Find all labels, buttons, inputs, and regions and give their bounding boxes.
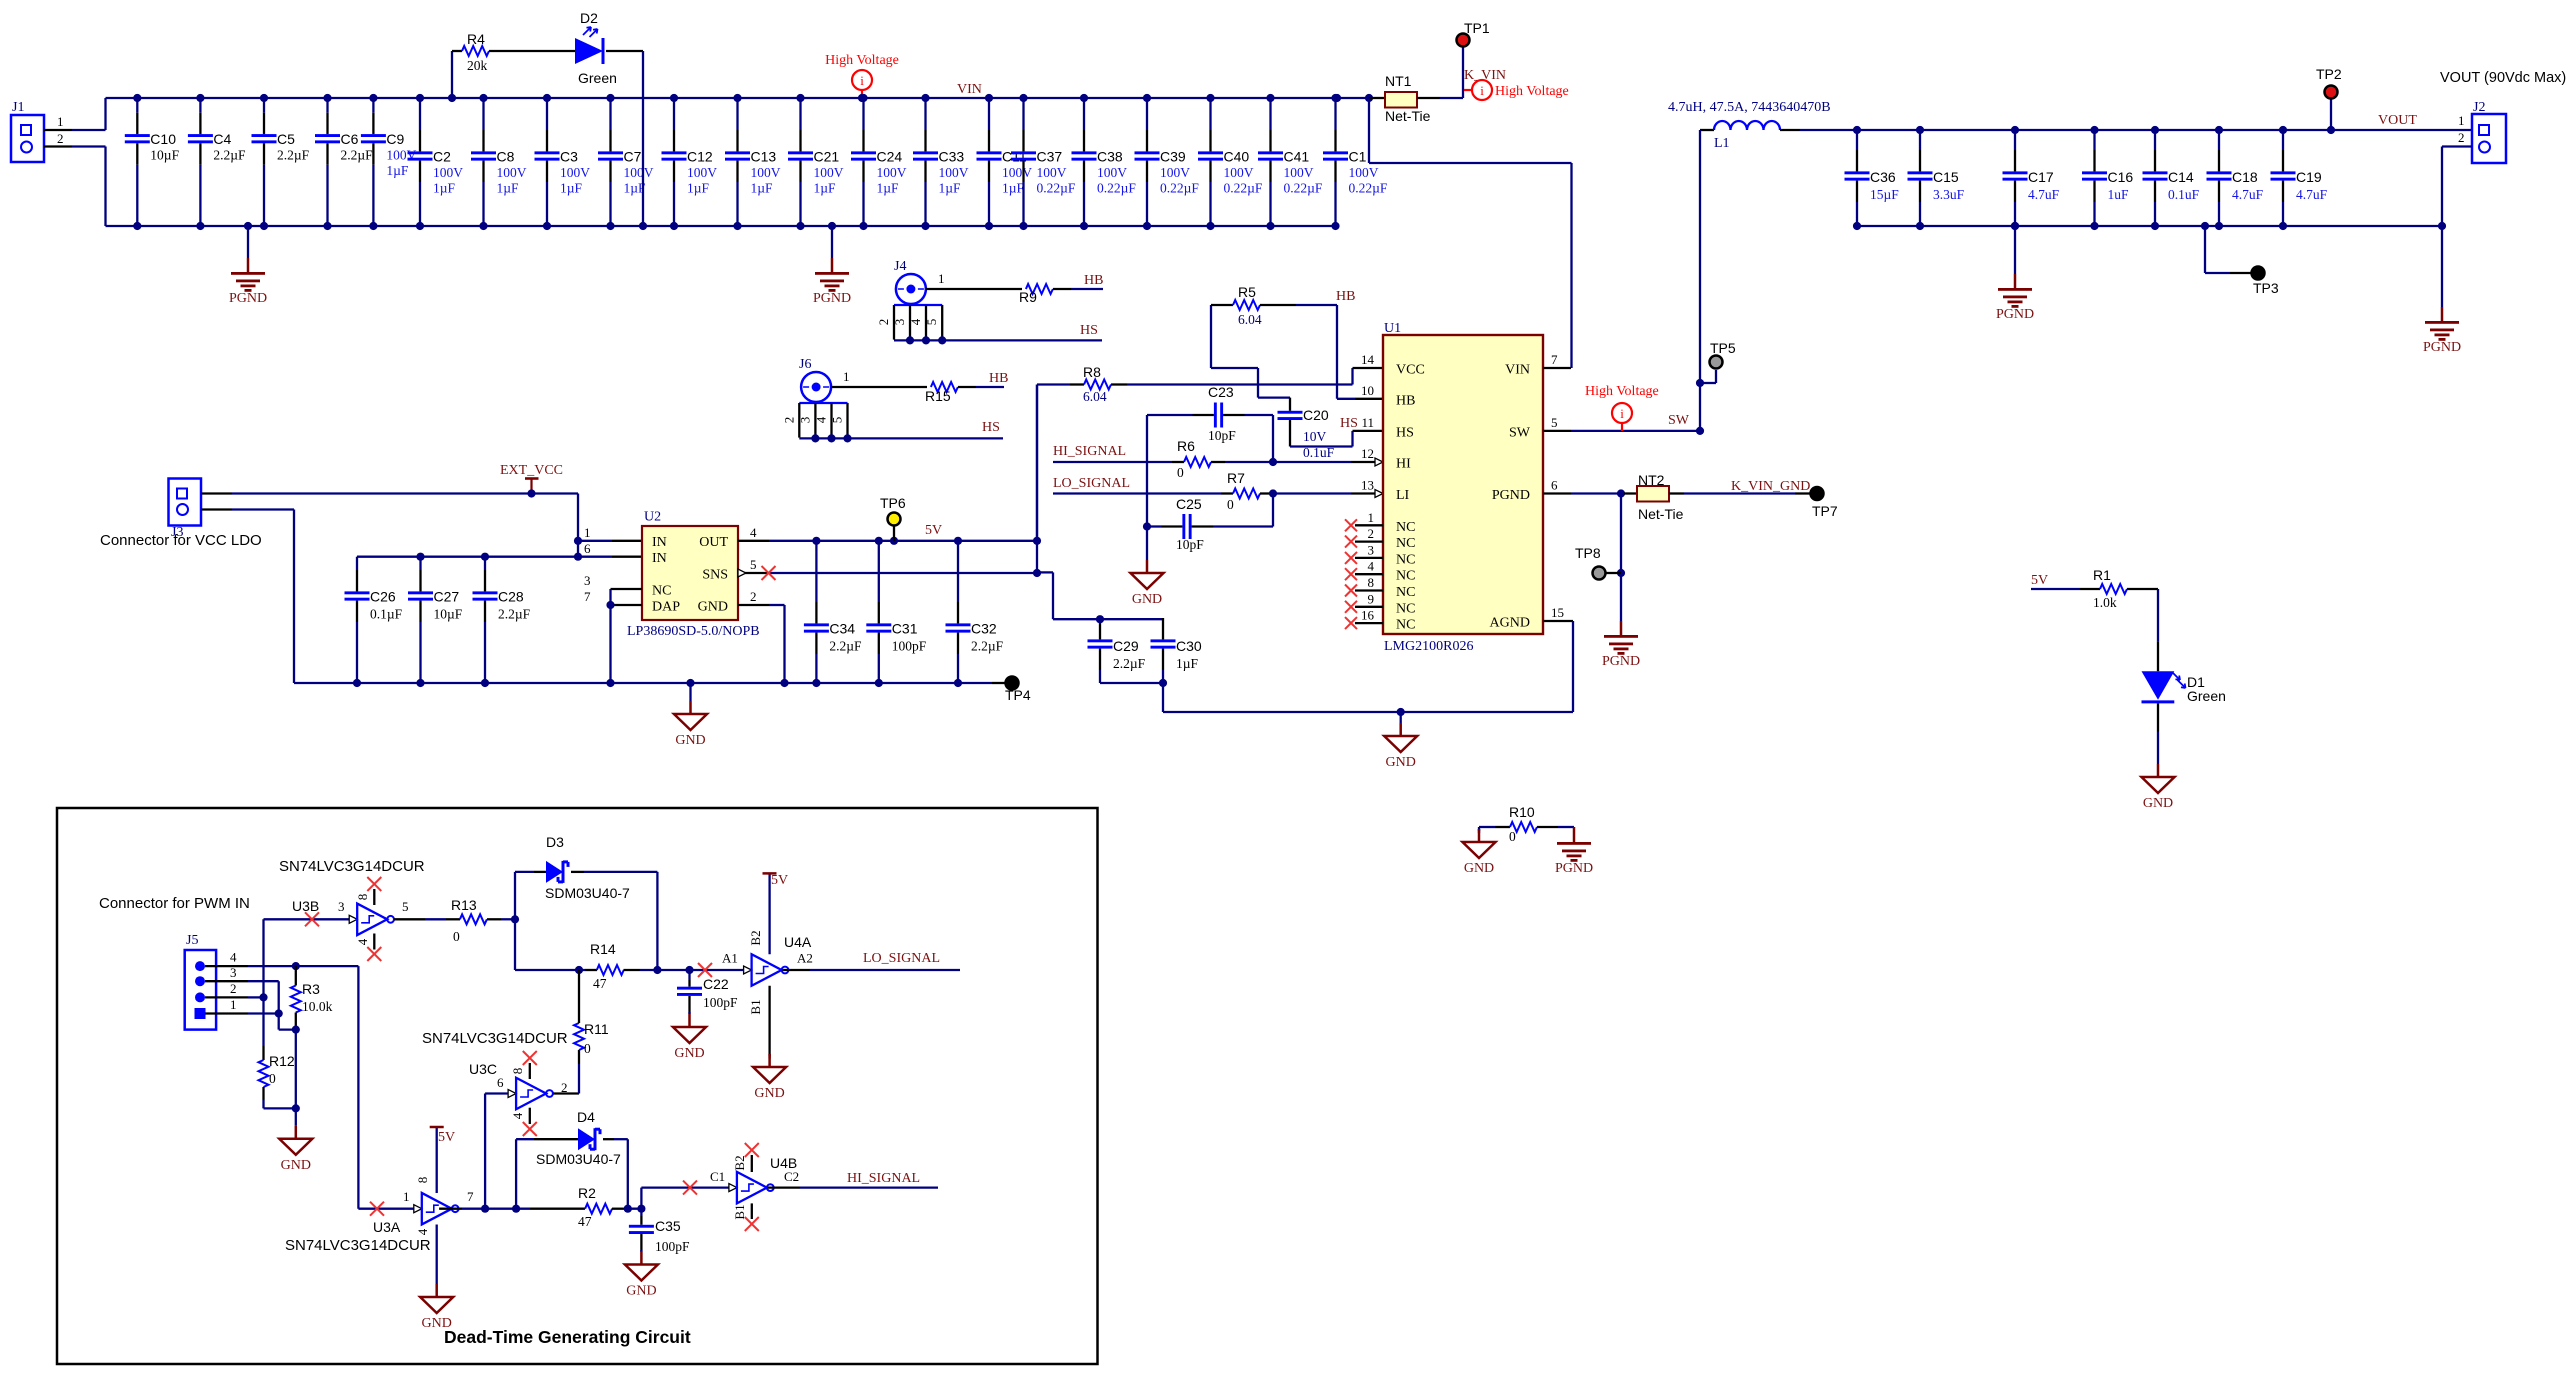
svg-text:C18: C18 bbox=[2232, 169, 2258, 185]
capacitor C23 bbox=[1214, 403, 1217, 428]
svg-text:4.7uF: 4.7uF bbox=[2296, 187, 2328, 202]
wire NT1 to K_VIN node bbox=[1417, 97, 1440, 99]
wire K_VIN_GND bbox=[1669, 492, 1684, 494]
svg-text:0.1uF: 0.1uF bbox=[2168, 187, 2200, 202]
svg-text:NT2: NT2 bbox=[1638, 472, 1665, 488]
svg-text:DAP: DAP bbox=[652, 600, 680, 615]
svg-text:100V: 100V bbox=[1037, 165, 1067, 180]
svg-text:15: 15 bbox=[1551, 605, 1564, 620]
resistor R8 (5V to VCC) bbox=[1036, 385, 1038, 541]
svg-text:6: 6 bbox=[584, 541, 591, 556]
svg-text:GND: GND bbox=[422, 1316, 452, 1331]
svg-text:HI_SIGNAL: HI_SIGNAL bbox=[847, 1171, 920, 1186]
capacitor C34 bbox=[815, 541, 817, 602]
svg-text:4.7uF: 4.7uF bbox=[2028, 187, 2060, 202]
svg-text:U3B: U3B bbox=[292, 898, 319, 914]
svg-text:GND: GND bbox=[1464, 861, 1494, 876]
svg-text:HI: HI bbox=[1396, 457, 1411, 472]
jumper J4 shield pins 2-5 bbox=[894, 304, 942, 306]
svg-text:6.04: 6.04 bbox=[1083, 389, 1107, 404]
svg-text:R8: R8 bbox=[1083, 364, 1101, 380]
svg-text:1: 1 bbox=[57, 114, 64, 129]
wire U3C input bbox=[484, 1094, 486, 1209]
svg-text:0.1µF: 0.1µF bbox=[370, 607, 403, 622]
svg-text:PGND: PGND bbox=[1555, 861, 1593, 876]
capacitor C6 bbox=[326, 98, 328, 113]
svg-text:High Voltage: High Voltage bbox=[1585, 384, 1659, 399]
svg-text:4: 4 bbox=[230, 950, 237, 965]
U1 NC pins bbox=[1355, 524, 1383, 526]
wire U2 pin1 stub bbox=[578, 540, 612, 542]
svg-text:J2: J2 bbox=[2473, 100, 2485, 115]
svg-text:8: 8 bbox=[355, 894, 370, 901]
svg-text:1: 1 bbox=[938, 271, 945, 286]
wire PGND bottom rail bbox=[106, 225, 1338, 227]
svg-text:100V: 100V bbox=[1284, 165, 1314, 180]
power ground PGND (R10) bbox=[1557, 842, 1591, 845]
connector J5 (PWM in) bbox=[185, 950, 216, 1030]
svg-text:1µF: 1µF bbox=[687, 181, 710, 196]
svg-text:C33: C33 bbox=[939, 149, 965, 165]
svg-text:C3: C3 bbox=[560, 149, 578, 165]
svg-text:8: 8 bbox=[415, 1177, 430, 1184]
svg-text:0: 0 bbox=[584, 1041, 591, 1056]
svg-text:7: 7 bbox=[467, 1189, 474, 1204]
svg-text:3: 3 bbox=[798, 417, 813, 424]
power port EXT_VCC bbox=[525, 477, 539, 480]
svg-text:J6: J6 bbox=[799, 357, 811, 372]
capacitor C10 bbox=[136, 98, 138, 113]
svg-text:10: 10 bbox=[1361, 383, 1374, 398]
wire HB to U1 pin10 bbox=[1336, 305, 1338, 399]
LED D2 bbox=[575, 38, 603, 64]
capacitor C11 bbox=[988, 98, 990, 130]
wire U3B output / resistor R13 bbox=[394, 918, 425, 920]
svg-text:NC: NC bbox=[1396, 569, 1415, 584]
svg-text:0: 0 bbox=[269, 1071, 276, 1086]
svg-text:A2: A2 bbox=[797, 950, 813, 965]
svg-text:100V: 100V bbox=[433, 165, 463, 180]
U4B power pins bbox=[751, 1155, 753, 1172]
wire C29/C30 bottom to GND line bbox=[1100, 682, 1163, 684]
svg-text:1: 1 bbox=[403, 1189, 410, 1204]
svg-text:9: 9 bbox=[1368, 591, 1375, 606]
capacitor C18 bbox=[2218, 130, 2220, 150]
wire U2 input rail bbox=[357, 556, 612, 558]
svg-text:C38: C38 bbox=[1097, 149, 1123, 165]
svg-text:0: 0 bbox=[453, 929, 460, 944]
regulator U2 LP38690SD-5.0/NOPB bbox=[642, 526, 738, 620]
inductor L1 bbox=[1700, 129, 1714, 131]
svg-text:1: 1 bbox=[584, 525, 591, 540]
svg-text:3.3uF: 3.3uF bbox=[1933, 187, 1965, 202]
svg-text:PGND: PGND bbox=[1602, 654, 1640, 669]
svg-text:C25: C25 bbox=[1176, 496, 1202, 512]
capacitor C21 bbox=[799, 98, 801, 130]
svg-text:C36: C36 bbox=[1870, 169, 1896, 185]
wire J6 HS line bbox=[799, 437, 1003, 439]
capacitor C12 bbox=[673, 98, 675, 130]
ground GND (C23/C25) bbox=[1146, 527, 1148, 561]
svg-text:1: 1 bbox=[230, 997, 237, 1012]
resistor R12 bbox=[262, 1046, 264, 1060]
svg-text:R9: R9 bbox=[1019, 289, 1037, 305]
ground GND (R10) bbox=[1478, 829, 1480, 831]
svg-text:7: 7 bbox=[1551, 352, 1558, 367]
svg-text:PGND: PGND bbox=[1492, 488, 1530, 503]
wire U2 pin6 stub bbox=[612, 556, 642, 558]
svg-text:6: 6 bbox=[497, 1075, 504, 1090]
svg-text:C15: C15 bbox=[1933, 169, 1959, 185]
svg-text:5V: 5V bbox=[771, 873, 788, 888]
capacitor C28 bbox=[484, 557, 486, 570]
svg-text:100V: 100V bbox=[751, 165, 781, 180]
svg-text:16: 16 bbox=[1361, 608, 1375, 623]
wire U2 ground rail bbox=[294, 682, 992, 684]
IC U1 LMG2100R026 bbox=[1383, 335, 1543, 634]
svg-text:Connector for VCC LDO: Connector for VCC LDO bbox=[100, 532, 262, 549]
svg-text:VCC: VCC bbox=[1396, 363, 1425, 378]
U3C power pins bbox=[529, 1063, 531, 1079]
high voltage marker (VIN rail) bbox=[852, 70, 872, 90]
svg-text:PGND: PGND bbox=[229, 291, 267, 306]
power ground PGND (output bank) bbox=[2011, 222, 2019, 230]
svg-text:C21: C21 bbox=[814, 149, 840, 165]
svg-text:A1: A1 bbox=[722, 950, 738, 965]
svg-text:C41: C41 bbox=[1284, 149, 1310, 165]
svg-text:100V: 100V bbox=[1349, 165, 1379, 180]
svg-text:IN: IN bbox=[652, 535, 667, 550]
svg-text:PGND: PGND bbox=[1996, 307, 2034, 322]
wire J4 pin1 / resistor R9 to HB bbox=[926, 288, 1022, 290]
wire C20 bottom to U1 pin11 (HS) bbox=[1290, 445, 1353, 447]
wire D1 cathode to GND bbox=[2157, 703, 2159, 731]
svg-text:100V: 100V bbox=[877, 165, 907, 180]
svg-text:3: 3 bbox=[230, 965, 237, 980]
svg-text:LI: LI bbox=[1396, 488, 1410, 503]
wire R1 to D1 bbox=[2157, 589, 2159, 642]
ground GND (U1 AGND) bbox=[1397, 708, 1405, 716]
U3A power 5V bbox=[436, 1127, 438, 1193]
svg-text:GND: GND bbox=[675, 733, 705, 748]
capacitor C8 bbox=[482, 98, 484, 130]
svg-text:1: 1 bbox=[1368, 510, 1375, 525]
svg-text:GND: GND bbox=[281, 1158, 311, 1173]
net tie NT1 bbox=[1333, 94, 1341, 102]
svg-text:D3: D3 bbox=[546, 834, 564, 850]
svg-text:Net-Tie: Net-Tie bbox=[1638, 506, 1684, 522]
svg-text:i: i bbox=[860, 73, 864, 88]
svg-text:5V: 5V bbox=[2031, 573, 2048, 588]
ground GND (U4A) bbox=[768, 1054, 770, 1056]
wire VIN rail to U1 VIN pin bbox=[1368, 98, 1370, 163]
svg-text:L1: L1 bbox=[1714, 136, 1730, 151]
ground GND (J5/R3/R12) bbox=[292, 1104, 300, 1112]
svg-text:0.22µF: 0.22µF bbox=[1349, 181, 1388, 196]
svg-text:NC: NC bbox=[652, 584, 671, 599]
capacitor C33 bbox=[924, 98, 926, 130]
svg-text:100V: 100V bbox=[1160, 165, 1190, 180]
wire VOUT rail bbox=[1800, 129, 2472, 131]
ground GND (C22) bbox=[688, 1012, 690, 1014]
svg-text:C31: C31 bbox=[892, 621, 918, 637]
svg-text:4: 4 bbox=[814, 416, 829, 423]
svg-text:GND: GND bbox=[2143, 796, 2173, 811]
svg-text:2.2µF: 2.2µF bbox=[341, 148, 374, 163]
high voltage marker (SW) bbox=[1612, 403, 1632, 423]
svg-text:2: 2 bbox=[876, 319, 891, 326]
svg-text:U1: U1 bbox=[1384, 321, 1401, 336]
svg-text:SDM03U40-7: SDM03U40-7 bbox=[536, 1151, 621, 1167]
svg-text:C29: C29 bbox=[1113, 638, 1139, 654]
svg-text:C30: C30 bbox=[1176, 638, 1202, 654]
test point TP7 bbox=[1811, 487, 1824, 500]
jumper J4 bbox=[896, 274, 926, 304]
svg-text:1µF: 1µF bbox=[877, 181, 900, 196]
wire R14 line / resistor R14 bbox=[514, 919, 516, 970]
svg-text:0.22µF: 0.22µF bbox=[1284, 181, 1323, 196]
ground GND (C35) bbox=[640, 1250, 642, 1252]
svg-text:4: 4 bbox=[908, 318, 923, 325]
wire HI_SIGNAL / resistor R6 bbox=[1053, 461, 1172, 463]
svg-text:B2: B2 bbox=[748, 930, 763, 945]
inverter U3C bbox=[508, 1090, 516, 1098]
wire 5V to C29/C30 bbox=[1037, 571, 1053, 573]
jumper J6 shield pins 2-5 bbox=[799, 402, 847, 404]
svg-text:High Voltage: High Voltage bbox=[825, 53, 899, 68]
svg-text:C22: C22 bbox=[703, 976, 729, 992]
svg-text:R1: R1 bbox=[2093, 567, 2111, 583]
wire VCC riser to U1 pin14 bbox=[1351, 368, 1353, 385]
svg-text:C35: C35 bbox=[655, 1218, 681, 1234]
svg-text:Green: Green bbox=[2187, 688, 2226, 704]
svg-text:NT1: NT1 bbox=[1385, 73, 1412, 89]
capacitor C24 bbox=[862, 98, 864, 130]
capacitor C37 bbox=[1022, 98, 1024, 130]
svg-text:GND: GND bbox=[754, 1086, 784, 1101]
svg-text:J5: J5 bbox=[186, 933, 198, 948]
svg-text:GND: GND bbox=[674, 1046, 704, 1061]
svg-text:C8: C8 bbox=[497, 149, 515, 165]
wire J1 pin1 to VIN rail bbox=[44, 129, 72, 131]
svg-text:U3A: U3A bbox=[373, 1219, 401, 1235]
svg-text:2: 2 bbox=[57, 131, 64, 146]
test point TP6 bbox=[890, 537, 898, 545]
capacitor C19 bbox=[2282, 130, 2284, 150]
inverter U3B bbox=[349, 915, 357, 923]
capacitor C13 bbox=[736, 98, 738, 130]
svg-text:C9: C9 bbox=[386, 131, 404, 147]
svg-text:100pF: 100pF bbox=[892, 639, 927, 654]
svg-text:C5: C5 bbox=[277, 131, 295, 147]
svg-text:10.0k: 10.0k bbox=[302, 999, 333, 1014]
svg-text:10V: 10V bbox=[1303, 429, 1327, 444]
svg-text:HI_SIGNAL: HI_SIGNAL bbox=[1053, 444, 1126, 459]
power ground PGND (J2) bbox=[2441, 226, 2443, 307]
svg-text:5: 5 bbox=[924, 319, 939, 326]
capacitor C30 bbox=[1151, 639, 1176, 642]
svg-text:C2: C2 bbox=[784, 1169, 799, 1184]
svg-text:1µF: 1µF bbox=[814, 181, 837, 196]
svg-text:R7: R7 bbox=[1227, 470, 1245, 486]
svg-text:15µF: 15µF bbox=[1870, 187, 1899, 202]
svg-text:EXT_VCC: EXT_VCC bbox=[500, 463, 563, 478]
svg-text:6.04: 6.04 bbox=[1238, 312, 1262, 327]
U4A power GND bbox=[768, 986, 770, 1059]
buffer U4A bbox=[744, 966, 752, 974]
svg-text:TP7: TP7 bbox=[1812, 503, 1838, 519]
net tie NT2 bbox=[1637, 486, 1669, 502]
wire J3 pin2 to GND rail bbox=[201, 508, 232, 510]
svg-text:LMG2100R026: LMG2100R026 bbox=[1384, 639, 1473, 654]
svg-text:5V: 5V bbox=[925, 523, 942, 538]
capacitor C31 bbox=[878, 541, 880, 602]
svg-text:R5: R5 bbox=[1238, 284, 1256, 300]
svg-text:8: 8 bbox=[1368, 575, 1375, 590]
wire U1 AGND to GND line bbox=[1572, 621, 1574, 712]
capacitor C38 bbox=[1083, 98, 1085, 130]
svg-text:C20: C20 bbox=[1303, 407, 1329, 423]
wire J5 pin2 (PWM LO in) bbox=[205, 996, 248, 998]
wire EXT_VCC (J3 pin1 to U2 IN) bbox=[201, 492, 232, 494]
wire U2 pin2 GND bbox=[738, 604, 769, 606]
svg-text:4: 4 bbox=[510, 1112, 525, 1119]
svg-text:2: 2 bbox=[230, 981, 237, 996]
svg-text:U4A: U4A bbox=[784, 934, 812, 950]
svg-text:Connector for PWM IN: Connector for PWM IN bbox=[99, 895, 250, 912]
test point TP2 bbox=[2327, 126, 2335, 134]
svg-text:C16: C16 bbox=[2108, 169, 2134, 185]
svg-text:C27: C27 bbox=[434, 589, 460, 605]
wire U1 right stubs bbox=[1543, 367, 1571, 369]
svg-text:3: 3 bbox=[1368, 542, 1375, 557]
svg-text:C32: C32 bbox=[971, 621, 997, 637]
svg-text:D4: D4 bbox=[577, 1109, 595, 1125]
svg-text:HB: HB bbox=[1396, 393, 1415, 408]
svg-text:TP6: TP6 bbox=[880, 495, 906, 511]
svg-text:3: 3 bbox=[338, 899, 345, 914]
wire J5 pin1 bbox=[205, 1012, 248, 1014]
wire SW (U1 pin5 to L1) bbox=[1571, 430, 1700, 432]
svg-text:R12: R12 bbox=[269, 1053, 295, 1069]
test point TP5 bbox=[1696, 379, 1704, 387]
svg-text:0.22µF: 0.22µF bbox=[1097, 181, 1136, 196]
svg-text:10µF: 10µF bbox=[434, 607, 463, 622]
test point TP4 bbox=[992, 682, 1005, 684]
svg-text:1µF: 1µF bbox=[1176, 656, 1199, 671]
svg-text:2: 2 bbox=[1368, 526, 1375, 541]
capacitor C41 bbox=[1269, 98, 1271, 130]
svg-text:C1: C1 bbox=[1349, 149, 1367, 165]
svg-text:100V: 100V bbox=[1224, 165, 1254, 180]
test point TP8 bbox=[1620, 494, 1622, 622]
svg-text:HS: HS bbox=[1080, 323, 1098, 338]
wire LO_SIGNAL / resistor R7 bbox=[1053, 492, 1221, 494]
wire J5 pin4 (PWM HI in) bbox=[205, 965, 248, 967]
wire VIN top rail bbox=[106, 97, 1370, 99]
svg-text:Net-Tie: Net-Tie bbox=[1385, 108, 1431, 124]
svg-text:B1: B1 bbox=[732, 1204, 747, 1219]
capacitor C27 bbox=[419, 557, 421, 570]
svg-text:B1: B1 bbox=[748, 999, 763, 1014]
svg-text:3: 3 bbox=[892, 319, 907, 326]
capacitor C32 bbox=[957, 541, 959, 602]
svg-text:0.22µF: 0.22µF bbox=[1160, 181, 1199, 196]
svg-text:100V: 100V bbox=[814, 165, 844, 180]
wire VOUT bank bottom rail bbox=[1857, 225, 2442, 227]
svg-text:1µF: 1µF bbox=[939, 181, 962, 196]
svg-text:100V: 100V bbox=[939, 165, 969, 180]
ground GND (D1) bbox=[2157, 763, 2159, 765]
capacitor C7 bbox=[609, 98, 611, 130]
svg-text:TP8: TP8 bbox=[1575, 545, 1601, 561]
capacitor C29 bbox=[1088, 639, 1113, 642]
high voltage marker (K_VIN) bbox=[1472, 80, 1492, 100]
svg-text:1µF: 1µF bbox=[751, 181, 774, 196]
svg-text:10pF: 10pF bbox=[1208, 428, 1236, 443]
svg-text:AGND: AGND bbox=[1490, 616, 1530, 631]
svg-text:SN74LVC3G14DCUR: SN74LVC3G14DCUR bbox=[422, 1030, 568, 1047]
svg-text:100V: 100V bbox=[624, 165, 654, 180]
svg-text:LP38690SD-5.0/NOPB: LP38690SD-5.0/NOPB bbox=[627, 624, 760, 639]
svg-text:100V: 100V bbox=[687, 165, 717, 180]
connector J3 (VCC LDO input) bbox=[169, 479, 202, 526]
svg-text:HS: HS bbox=[1340, 416, 1358, 431]
svg-text:NC: NC bbox=[1396, 601, 1415, 616]
svg-text:47: 47 bbox=[578, 1214, 592, 1229]
wire U2 pin3/pin7 NC-DAP tie bbox=[611, 588, 643, 590]
svg-text:TP4: TP4 bbox=[1005, 687, 1031, 703]
svg-text:C24: C24 bbox=[877, 149, 903, 165]
svg-text:C10: C10 bbox=[150, 131, 176, 147]
svg-text:VIN: VIN bbox=[957, 82, 982, 97]
svg-text:4: 4 bbox=[355, 938, 370, 945]
capacitor C35 bbox=[640, 1209, 642, 1216]
svg-text:SDM03U40-7: SDM03U40-7 bbox=[545, 885, 630, 901]
U4A power 5V bbox=[768, 873, 770, 954]
svg-text:C40: C40 bbox=[1224, 149, 1250, 165]
svg-text:1µF: 1µF bbox=[497, 181, 520, 196]
svg-text:4.7uF: 4.7uF bbox=[2232, 187, 2264, 202]
svg-text:GND: GND bbox=[1386, 755, 1416, 770]
svg-text:R3: R3 bbox=[302, 981, 320, 997]
svg-text:HB: HB bbox=[989, 371, 1008, 386]
svg-text:100V: 100V bbox=[1097, 165, 1127, 180]
ground GND (U3A) bbox=[436, 1225, 438, 1285]
svg-text:5: 5 bbox=[402, 899, 409, 914]
capacitor C1 bbox=[1334, 98, 1336, 130]
svg-text:LO_SIGNAL: LO_SIGNAL bbox=[863, 951, 940, 966]
svg-text:R15: R15 bbox=[925, 388, 951, 404]
svg-text:SNS: SNS bbox=[702, 568, 728, 583]
svg-text:R11: R11 bbox=[584, 1021, 609, 1037]
svg-text:1µF: 1µF bbox=[560, 181, 583, 196]
svg-text:NC: NC bbox=[1396, 536, 1415, 551]
svg-text:5: 5 bbox=[750, 557, 757, 572]
svg-text:VOUT: VOUT bbox=[2378, 113, 2417, 128]
svg-text:C34: C34 bbox=[829, 621, 855, 637]
svg-text:2.2µF: 2.2µF bbox=[213, 148, 246, 163]
wire U3B input from J5 pin2 bbox=[262, 919, 264, 1046]
svg-text:i: i bbox=[1620, 406, 1624, 421]
svg-text:TP3: TP3 bbox=[2253, 280, 2279, 296]
svg-text:1µF: 1µF bbox=[1002, 181, 1025, 196]
svg-text:VOUT (90Vdc Max): VOUT (90Vdc Max) bbox=[2440, 70, 2566, 86]
svg-text:2: 2 bbox=[782, 417, 797, 424]
U3B power pins bbox=[373, 889, 375, 905]
svg-text:U2: U2 bbox=[644, 510, 661, 525]
svg-text:C28: C28 bbox=[498, 589, 524, 605]
